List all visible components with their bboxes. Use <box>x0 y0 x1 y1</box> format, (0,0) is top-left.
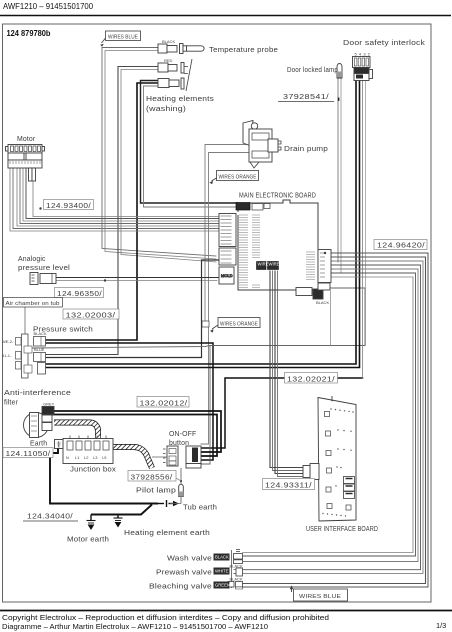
wires blue arrow (bottom) <box>291 589 293 592</box>
valve bundle wire 4 <box>243 265 421 570</box>
wire heater lower to board 1 <box>141 81 239 204</box>
earth clip <box>55 440 64 449</box>
drain pump <box>243 121 281 169</box>
motor wire 2 <box>13 168 219 229</box>
wire temp probe 2 <box>105 51 216 260</box>
svg-text:Anti-interference: Anti-interference <box>4 390 71 397</box>
wire heating upper 2 <box>121 70 216 263</box>
junction box <box>63 436 113 464</box>
board left connector block 2 <box>219 248 236 265</box>
filter heavy wire 1 <box>52 411 221 452</box>
svg-text:5432: 5432 <box>355 52 373 57</box>
footer rule <box>0 610 452 612</box>
svg-text:124.93400/: 124.93400/ <box>46 201 92 210</box>
svg-text:WIRES ORANGE: WIRES ORANGE <box>220 321 258 327</box>
heater lower connector <box>158 79 169 88</box>
heater lower terminal <box>181 78 184 89</box>
board J4 connector <box>318 250 331 283</box>
wash valve coil <box>232 550 243 589</box>
switch blue contact <box>34 353 46 362</box>
motor sub-plug <box>29 168 33 181</box>
temperature probe connector <box>158 44 167 53</box>
tub earth arrow <box>158 500 174 507</box>
svg-text:GREY: GREY <box>43 402 55 407</box>
motor connector <box>6 145 45 182</box>
ui ribbon wire 3 <box>275 271 303 474</box>
on-off button <box>163 446 201 468</box>
wire heater-to-pressure-switch (heavy) <box>46 83 159 340</box>
switch blue wire 1 <box>46 260 219 358</box>
motor pin ticks <box>10 161 40 164</box>
svg-text:Door safety interlock: Door safety interlock <box>343 40 425 47</box>
svg-text:Tub earth: Tub earth <box>183 505 217 512</box>
svg-text:Diagramme – Arthur Martin Elec: Diagramme – Arthur Martin Electrolux – A… <box>2 622 268 631</box>
svg-text:Pressure switch: Pressure switch <box>33 327 93 334</box>
svg-text:(washing): (washing) <box>146 106 186 113</box>
svg-text:124.34040/: 124.34040/ <box>27 512 74 521</box>
ui ribbon wire 1 <box>270 271 303 468</box>
earth branch bus <box>91 505 152 515</box>
svg-text:WIRES: WIRES <box>269 262 283 267</box>
motor wire 1 <box>10 168 219 231</box>
interlock thin lead <box>362 80 364 378</box>
svg-text:124.96420/: 124.96420/ <box>377 241 426 250</box>
air chamber tube <box>24 307 26 334</box>
motor earth symbol <box>87 515 96 530</box>
board right pin column <box>306 252 315 280</box>
motor wire 4 <box>20 168 219 224</box>
wire drain pump 1 <box>205 145 249 322</box>
svg-text:Motor earth: Motor earth <box>67 537 109 544</box>
motor wire 5 <box>23 168 219 221</box>
header rule <box>0 15 451 17</box>
svg-text:BLACK: BLACK <box>215 555 229 560</box>
svg-text:37928556/: 37928556/ <box>131 472 174 481</box>
wire heater lower to board 2 <box>144 86 239 207</box>
svg-text:WIRES BLUE: WIRES BLUE <box>108 34 138 40</box>
door locked lamp <box>337 64 342 101</box>
svg-text:124.96350/: 124.96350/ <box>57 289 103 298</box>
ui board top pin <box>331 396 333 401</box>
label 124.93400 <box>39 200 93 210</box>
board MOLD connector <box>219 267 234 284</box>
ui board dot rows <box>322 400 353 517</box>
svg-text:Copyright Electrolux – Reprodu: Copyright Electrolux – Reproduction et d… <box>2 613 329 622</box>
ui ribbon wire 4 <box>278 271 304 477</box>
svg-text:Junction box: Junction box <box>70 467 116 474</box>
svg-text:Pilot lamp: Pilot lamp <box>136 488 176 495</box>
label WIRES BLUE bottom <box>294 589 348 601</box>
svg-text:WHITE: WHITE <box>215 569 229 574</box>
svg-text:AWF1210 – 91451501700: AWF1210 – 91451501700 <box>3 2 93 11</box>
pump wire terminal <box>202 321 209 327</box>
svg-text:MOLD: MOLD <box>221 273 233 278</box>
svg-text:WE-2-: WE-2- <box>2 339 14 344</box>
pilot lamp symbol <box>170 468 183 504</box>
svg-text:USER INTERFACE BOARD: USER INTERFACE BOARD <box>306 526 378 533</box>
svg-text:Bleaching valve: Bleaching valve <box>149 584 212 591</box>
motor wire 3 <box>17 168 219 226</box>
svg-text:BLUE: BLUE <box>34 347 45 352</box>
label 132.02021 <box>285 373 338 384</box>
svg-text:WIRES BLUE: WIRES BLUE <box>299 594 341 600</box>
switch black wire 2 heavy to button <box>46 343 213 460</box>
wire heating upper 1 <box>46 67 160 355</box>
svg-text:WIRES ORANGE: WIRES ORANGE <box>219 174 257 180</box>
interlock loop wire to button <box>201 378 363 448</box>
board pin label column 2 <box>252 215 260 288</box>
valve bundle wire 2 <box>243 257 426 584</box>
ui board pads <box>325 412 352 511</box>
svg-text:L3: L3 <box>93 455 98 460</box>
heating element earth symbol <box>114 515 123 527</box>
svg-text:132.02003/: 132.02003/ <box>66 310 117 319</box>
switch grey contact <box>38 363 46 375</box>
svg-text:132.02012/: 132.02012/ <box>140 398 189 407</box>
valve bundle wire 7 <box>243 277 414 553</box>
temperature probe body <box>183 46 204 51</box>
thin wire to board lower conn <box>32 288 365 348</box>
board pin label column 1 <box>239 215 248 288</box>
svg-text:124.93311/: 124.93311/ <box>265 481 313 490</box>
door lamp lead 2 <box>340 78 342 273</box>
label 124.96420 <box>374 240 427 250</box>
wire board-black-conn drop <box>330 291 332 346</box>
svg-text:L5: L5 <box>102 455 107 460</box>
svg-text:ON-OFF: ON-OFF <box>169 431 196 438</box>
svg-text:BLACK: BLACK <box>230 577 243 582</box>
main electronic board outline <box>238 200 318 290</box>
svg-text:Heating elements: Heating elements <box>146 96 214 103</box>
heater upper connector <box>158 63 168 72</box>
pressure switch body <box>16 334 46 378</box>
svg-text:Heating element earth: Heating element earth <box>124 530 210 537</box>
svg-text:124 879780b: 124 879780b <box>7 29 51 38</box>
heater flange <box>186 59 192 91</box>
svg-text:RED: RED <box>164 58 173 63</box>
label 124.93311 <box>263 479 315 490</box>
svg-text:WIRE: WIRE <box>258 262 269 267</box>
label 132.02012 <box>137 397 189 408</box>
label WIRES BLUE top <box>100 31 140 47</box>
svg-text:N: N <box>66 455 69 460</box>
pressure sensor <box>30 273 56 285</box>
label 124.96350 <box>55 279 107 298</box>
filter heavy wire 2 <box>52 415 217 457</box>
svg-text:BLACK: BLACK <box>162 39 175 44</box>
svg-text:Drain pump: Drain pump <box>284 146 328 153</box>
svg-text:41-1-: 41-1- <box>2 353 12 358</box>
svg-text:124.11050/: 124.11050/ <box>6 449 52 458</box>
svg-text:Earth: Earth <box>30 441 47 448</box>
label 124.11050 <box>3 448 53 458</box>
motor wire 6 <box>26 168 219 219</box>
svg-text:MAIN ELECTRONIC BOARD: MAIN ELECTRONIC BOARD <box>239 193 316 200</box>
board top connector plugs <box>236 203 270 211</box>
door lamp lead 1 <box>337 78 339 262</box>
junction-to-button wire <box>152 456 167 458</box>
ui board connector stack <box>344 477 355 499</box>
label WIRES ORANGE top <box>210 171 259 185</box>
svg-text:BLACK: BLACK <box>230 563 243 568</box>
svg-text:GREEN: GREEN <box>215 583 230 588</box>
motor wire 7 <box>33 182 219 217</box>
board mid black connectors <box>257 262 279 270</box>
board bottom-right connectors <box>296 283 330 299</box>
wire temp probe 1 <box>102 48 216 257</box>
svg-text:button: button <box>169 440 189 447</box>
pressure sensor wire <box>56 277 219 279</box>
board left connector block 1 <box>219 214 236 247</box>
ui ribbon wire 2 <box>273 271 304 471</box>
valve bundle wire 1 <box>243 253 429 587</box>
svg-text:pressure level: pressure level <box>18 265 70 272</box>
svg-text:filter: filter <box>4 400 18 407</box>
anti-interference filter <box>24 407 55 438</box>
heater upper terminal <box>181 63 184 74</box>
valve bundle wire 6 <box>243 273 416 556</box>
interlock heavy wire 2 <box>46 80 360 368</box>
svg-text:Air chamber on tub: Air chamber on tub <box>6 301 60 307</box>
svg-text:Prewash valve: Prewash valve <box>156 570 212 577</box>
svg-text:Temperature probe: Temperature probe <box>209 47 278 54</box>
bleaching valve coil <box>228 582 243 590</box>
ui board left plug <box>303 464 319 480</box>
svg-text:Wash valve: Wash valve <box>167 556 212 563</box>
svg-text:BLACK: BLACK <box>316 300 329 305</box>
label air chamber on tub <box>4 298 63 308</box>
svg-text:Analogic: Analogic <box>18 256 46 263</box>
label 132.02003 <box>63 309 119 319</box>
prewash valve coil <box>234 568 243 576</box>
svg-text:132.02021/: 132.02021/ <box>287 374 336 383</box>
svg-text:L1: L1 <box>75 455 80 460</box>
pressure sensor wire 2 <box>56 280 217 282</box>
interlock heavy wire 1 <box>46 80 356 364</box>
label WIRES ORANGE bottom <box>210 318 260 333</box>
svg-text:Motor: Motor <box>17 136 36 143</box>
valve bundle wire 5 <box>243 269 419 562</box>
wire drain pump 2 <box>201 153 249 445</box>
switch black contact <box>34 337 46 347</box>
svg-text:Door locked lamp: Door locked lamp <box>287 67 338 74</box>
door safety interlock <box>353 57 373 81</box>
earth heavy wire <box>50 449 158 504</box>
user interface board <box>318 398 356 522</box>
valve bundle wire 3 <box>243 261 424 573</box>
junction hatched cable <box>112 447 152 468</box>
svg-text:37928541/: 37928541/ <box>283 92 330 101</box>
interlock thin lead 2 <box>365 80 367 346</box>
label 37928556 <box>128 471 181 482</box>
mains hatched cable <box>54 423 98 439</box>
svg-text:L2: L2 <box>84 455 89 460</box>
svg-text:1/3: 1/3 <box>436 621 446 630</box>
